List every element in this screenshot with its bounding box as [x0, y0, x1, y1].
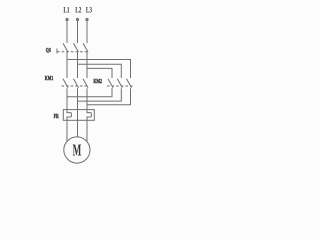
svg-text:QS: QS [46, 47, 51, 54]
svg-text:KM1: KM1 [45, 75, 54, 82]
svg-text:L1: L1 [63, 5, 69, 15]
svg-text:M: M [73, 141, 82, 160]
svg-text:L2: L2 [75, 5, 81, 15]
svg-text:L3: L3 [86, 5, 92, 15]
svg-text:KM2: KM2 [93, 78, 102, 85]
svg-text:FR: FR [54, 113, 59, 120]
